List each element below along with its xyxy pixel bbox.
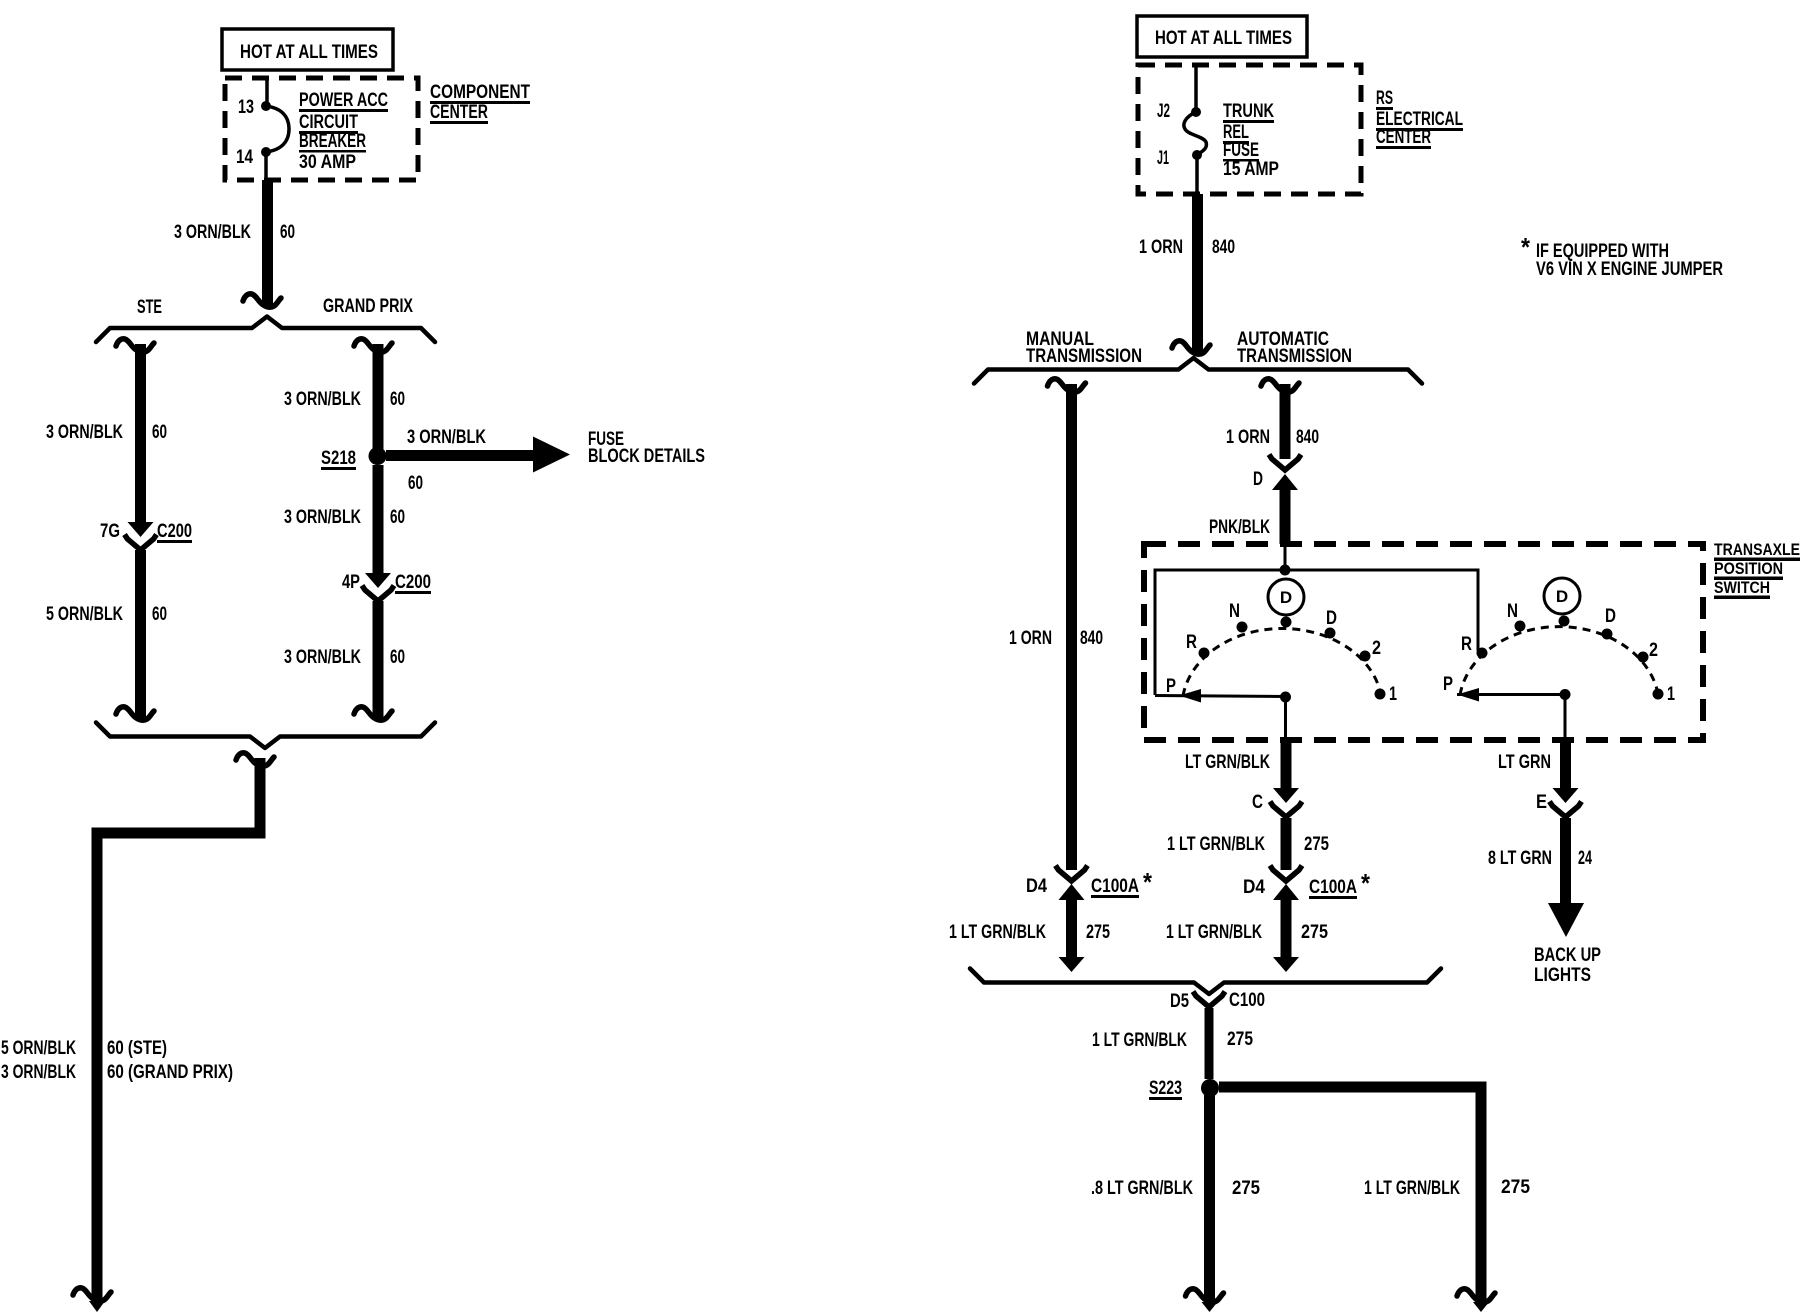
svg-text:60: 60 (408, 473, 423, 494)
wire 3 ORN/BLK 60 from breaker (heavy) (262, 180, 273, 305)
svg-text:60 (STE): 60 (STE) (107, 1038, 167, 1059)
svg-text:275: 275 (1086, 922, 1110, 943)
svg-text:60: 60 (152, 604, 167, 625)
svg-text:BREAKER: BREAKER (299, 131, 366, 152)
svg-text:60: 60 (390, 507, 405, 528)
GRAND PRIX wire 3 ORN/BLK 60 middle (heavy) (373, 465, 384, 573)
svg-text:1 LT GRN/BLK: 1 LT GRN/BLK (1092, 1030, 1187, 1051)
svg-text:3 ORN/BLK: 3 ORN/BLK (407, 427, 486, 448)
svg-text:3 ORN/BLK: 3 ORN/BLK (46, 422, 123, 443)
connector D fishtail (upper half) (1269, 455, 1301, 471)
RS electrical center dashed box (1138, 65, 1361, 194)
connector C100 fishtail (D5) (1193, 992, 1225, 1008)
svg-text:PNK/BLK: PNK/BLK (1209, 517, 1270, 538)
circuit breaker pin 14 terminal (261, 147, 271, 157)
svg-text:POSITION: POSITION (1714, 559, 1783, 578)
switch 2 contact 2 (1638, 652, 1649, 663)
svg-text:D: D (1253, 469, 1263, 490)
switch 1 wiper arrow at P (1179, 689, 1201, 703)
svg-text:840: 840 (1212, 237, 1235, 258)
svg-text:V6 VIN X ENGINE JUMPER: V6 VIN X ENGINE JUMPER (1536, 259, 1723, 280)
svg-text:840: 840 (1080, 628, 1103, 649)
svg-text:D4: D4 (1026, 876, 1047, 897)
svg-text:60: 60 (390, 389, 405, 410)
automatic branch continuation arrow (1261, 379, 1299, 392)
svg-text:24: 24 (1578, 848, 1592, 869)
switch 2 contact N (1515, 621, 1526, 632)
switch 1 output wire (1284, 697, 1287, 741)
splice S218 (369, 447, 387, 465)
power feed label box HOT AT ALL TIMES (right) (1137, 16, 1307, 57)
continuation arrow below merge (236, 753, 274, 766)
GRAND PRIX branch continuation arrow (354, 339, 392, 352)
off-page arrow bottom left (73, 1288, 111, 1301)
svg-text:HOT AT ALL TIMES: HOT AT ALL TIMES (240, 42, 378, 63)
svg-text:TRANSAXLE: TRANSAXLE (1714, 540, 1800, 559)
svg-text:1 LT GRN/BLK: 1 LT GRN/BLK (1364, 1178, 1460, 1199)
manual wire 1 LT GRN/BLK 275 (heavy) (1066, 900, 1077, 957)
svg-text:P: P (1166, 676, 1176, 697)
wire 8 LT GRN 24 (heavy) (1560, 818, 1571, 904)
STE branch continuation arrow to splice (116, 707, 154, 720)
svg-text:1: 1 (1389, 684, 1397, 705)
connector C male arrow (1273, 788, 1299, 803)
connector C100A male arrow up (manual) (1059, 884, 1085, 900)
svg-text:1 ORN: 1 ORN (1009, 628, 1052, 649)
svg-text:COMPONENT: COMPONENT (430, 82, 530, 103)
svg-text:8 LT GRN: 8 LT GRN (1488, 848, 1552, 869)
transaxle position switch dashed box (1144, 544, 1703, 740)
svg-text:R: R (1186, 632, 1197, 653)
svg-text:*: * (1521, 232, 1531, 262)
connector D male arrow up (1272, 474, 1298, 490)
wire down from merge (heavy) (255, 758, 266, 833)
wire 1 LT GRN/BLK 275 to S223 (1205, 1008, 1214, 1079)
arrow to FUSE BLOCK DETAILS (533, 437, 570, 473)
svg-text:C100: C100 (1229, 990, 1265, 1011)
svg-text:LIGHTS: LIGHTS (1534, 965, 1591, 986)
fuse terminal J2 (1191, 107, 1201, 117)
svg-text:CENTER: CENTER (1376, 127, 1431, 148)
svg-text:3 ORN/BLK: 3 ORN/BLK (1, 1062, 76, 1083)
svg-text:TRANSMISSION: TRANSMISSION (1026, 346, 1142, 367)
svg-text:N: N (1229, 601, 1240, 622)
svg-text:C: C (1252, 792, 1263, 813)
switch 2 contact top (D indicator) (1559, 616, 1570, 627)
wire J1 to box edge (1195, 155, 1199, 194)
long wire down left margin (heavy) (92, 828, 103, 1302)
switch 2 wiper line (1457, 693, 1565, 696)
switch feed bus (inner box) (1155, 570, 1478, 695)
GRAND PRIX wire 3 ORN/BLK 60 lower (heavy) (373, 601, 384, 720)
svg-text:LT GRN: LT GRN (1498, 752, 1551, 773)
circuit breaker pin 13 terminal (261, 101, 271, 111)
switch 1 drive indicator circled D (1268, 579, 1304, 615)
svg-text:1: 1 (1667, 684, 1675, 705)
svg-text:D5: D5 (1170, 991, 1189, 1012)
svg-text:1 ORN: 1 ORN (1226, 427, 1270, 448)
switch 2 contact R (fed) (1477, 648, 1488, 659)
fuse terminal J1 (1192, 150, 1202, 160)
svg-text:275: 275 (1232, 1178, 1260, 1199)
STE branch continuation arrow (116, 339, 154, 352)
svg-text:D: D (1556, 587, 1568, 606)
power feed label box HOT AT ALL TIMES (left) (222, 29, 393, 70)
switch feed junction (1280, 565, 1291, 576)
elbow wire to left (heavy) (92, 828, 266, 839)
switch 1 contact top (D indicator) (1281, 617, 1292, 628)
svg-text:3 ORN/BLK: 3 ORN/BLK (284, 507, 361, 528)
manual branch wire 1 ORN 840 (heavy) (1066, 384, 1077, 870)
svg-text:C100A: C100A (1309, 877, 1357, 898)
svg-text:R: R (1461, 634, 1472, 655)
GRAND PRIX continuation arrow to splice (354, 707, 392, 720)
svg-text:275: 275 (1301, 922, 1328, 943)
svg-text:N: N (1507, 601, 1518, 622)
split brace manual/automatic transmission (974, 358, 1422, 384)
svg-text:1 ORN: 1 ORN (1139, 237, 1183, 258)
svg-text:STE: STE (137, 297, 162, 318)
svg-text:TRANSMISSION: TRANSMISSION (1237, 346, 1352, 367)
off-page arrow bottom right (1457, 1289, 1495, 1302)
wire from feed to fuse J2 (1194, 66, 1198, 112)
svg-text:C100A: C100A (1091, 876, 1139, 897)
svg-text:60 (GRAND PRIX): 60 (GRAND PRIX) (107, 1062, 233, 1083)
svg-text:J2: J2 (1157, 101, 1170, 122)
switch 1 rotary arc (dashed) (1183, 628, 1381, 696)
svg-text:S218: S218 (321, 448, 356, 469)
split brace STE / GRAND PRIX (96, 317, 435, 343)
switch 2 output wire (1564, 695, 1567, 742)
svg-text:FUSE: FUSE (1223, 140, 1259, 161)
connector C100A fishtail (manual) (1056, 866, 1088, 882)
wire pin 14 to box edge (264, 152, 268, 180)
svg-text:7G: 7G (100, 521, 120, 542)
switch 1 wiper line (1155, 696, 1285, 697)
svg-text:60: 60 (152, 422, 167, 443)
merge brace of STE and GRAND PRIX (96, 723, 435, 749)
svg-text:4P: 4P (342, 572, 360, 593)
svg-text:3 ORN/BLK: 3 ORN/BLK (174, 222, 251, 243)
svg-text:E: E (1536, 792, 1547, 813)
svg-text:D: D (1280, 588, 1292, 607)
svg-text:LT GRN/BLK: LT GRN/BLK (1185, 752, 1270, 773)
svg-text:POWER ACC: POWER ACC (299, 90, 388, 111)
svg-text:15 AMP: 15 AMP (1223, 159, 1279, 180)
merge brace at C100 (970, 969, 1441, 995)
svg-text:S223: S223 (1149, 1078, 1182, 1099)
trunk rel fuse element (S-curve) (1184, 112, 1207, 155)
connector E male arrow (1553, 788, 1579, 803)
wire 1 LT GRN/BLK 275 right branch (heavy) (1219, 1082, 1487, 1093)
switch 2 rotary arc (dashed) (1460, 627, 1658, 695)
svg-text:5 ORN/BLK: 5 ORN/BLK (46, 604, 123, 625)
wire PNK/BLK into switch (heavy) (1280, 490, 1291, 544)
switch 2 contact D (1602, 629, 1613, 640)
switch 1 contact R (1199, 648, 1210, 659)
component center dashed box (225, 78, 418, 180)
STE branch wire 3 ORN/BLK 60 (heavy) (135, 344, 146, 522)
svg-text:D: D (1326, 608, 1337, 629)
wire from HOT feed into breaker pin 13 (265, 80, 269, 106)
svg-text:840: 840 (1296, 427, 1319, 448)
switch 2 drive indicator circled D (1544, 578, 1580, 614)
svg-text:1 LT GRN/BLK: 1 LT GRN/BLK (1166, 922, 1262, 943)
svg-text:BLOCK DETAILS: BLOCK DETAILS (588, 446, 705, 467)
svg-text:13: 13 (238, 97, 254, 118)
continuation arrow onto transmission split (1172, 341, 1210, 354)
connector C100A male arrow up (auto) (1273, 884, 1299, 900)
connector C200 male arrow (4P) (365, 573, 391, 588)
svg-text:275: 275 (1304, 834, 1329, 855)
switch 2 wiper arrow at P (1457, 688, 1479, 702)
connector C100A fishtail (auto) (1270, 866, 1302, 882)
splice S223 (1201, 1079, 1219, 1097)
wire LT GRN/BLK below switch (heavy) (1281, 741, 1292, 788)
svg-text:CENTER: CENTER (430, 102, 488, 123)
wire 1 LT GRN/BLK 275 (heavy) (1281, 818, 1292, 870)
svg-text:2: 2 (1372, 638, 1381, 659)
svg-text:2: 2 (1649, 640, 1658, 661)
connector C200 female fishtail (7G) (125, 535, 157, 551)
manual branch continuation arrow (1048, 379, 1086, 392)
svg-text:1 LT GRN/BLK: 1 LT GRN/BLK (1167, 834, 1265, 855)
svg-text:GRAND PRIX: GRAND PRIX (323, 296, 413, 317)
svg-text:275: 275 (1501, 1177, 1530, 1198)
svg-text:*: * (1143, 867, 1153, 897)
switch 1 contact N (1237, 622, 1248, 633)
svg-text:60: 60 (390, 647, 405, 668)
automatic wire 1 ORN 840 (heavy) (1280, 384, 1291, 459)
svg-text:P: P (1443, 674, 1453, 695)
wire LT GRN below switch 2 (heavy) (1560, 741, 1571, 788)
svg-text:TRUNK: TRUNK (1223, 101, 1274, 122)
arrow to BACK UP LIGHTS (1548, 903, 1584, 937)
connector C fishtail (1270, 802, 1302, 818)
off-page arrow bottom (.8 LT GRN/BLK) (1186, 1289, 1224, 1302)
svg-text:.8 LT GRN/BLK: .8 LT GRN/BLK (1091, 1178, 1193, 1199)
switch 1 contact 2 (1360, 651, 1371, 662)
svg-text:14: 14 (236, 147, 253, 168)
svg-text:3 ORN/BLK: 3 ORN/BLK (284, 389, 361, 410)
connector C200 male arrow (7G) (128, 522, 154, 537)
switch 2 output junction (1560, 689, 1571, 700)
svg-text:3 ORN/BLK: 3 ORN/BLK (284, 647, 361, 668)
svg-text:5 ORN/BLK: 5 ORN/BLK (1, 1038, 76, 1059)
svg-text:1 LT GRN/BLK: 1 LT GRN/BLK (949, 922, 1046, 943)
switch 1 contact 1 (1375, 689, 1386, 700)
svg-text:D4: D4 (1243, 877, 1265, 898)
switch 1 output junction (1280, 692, 1291, 703)
auto wire arrow into splice (1273, 957, 1299, 972)
svg-text:D: D (1605, 606, 1616, 627)
auto wire 1 LT GRN/BLK 275 (heavy) (1281, 900, 1292, 957)
wire .8 LT GRN/BLK 275 down (heavy) (1204, 1095, 1215, 1301)
connector C200 female fishtail (4P) (362, 586, 394, 602)
STE branch wire 5 ORN/BLK 60 (heavy) (135, 550, 146, 720)
svg-text:HOT AT ALL TIMES: HOT AT ALL TIMES (1155, 28, 1292, 49)
switch 1 contact D (1325, 628, 1336, 639)
svg-text:C200: C200 (395, 572, 431, 593)
svg-text:275: 275 (1227, 1029, 1253, 1050)
svg-text:CIRCUIT: CIRCUIT (299, 112, 358, 133)
svg-text:BACK UP: BACK UP (1534, 945, 1601, 966)
svg-text:30 AMP: 30 AMP (299, 152, 356, 173)
svg-text:C200: C200 (157, 521, 192, 542)
svg-text:*: * (1361, 868, 1371, 898)
manual wire arrow into splice (1059, 957, 1085, 972)
GRAND PRIX wire 3 ORN/BLK 60 upper (heavy) (373, 344, 384, 449)
svg-text:60: 60 (280, 222, 295, 243)
wire 1 ORN 840 feed (heavy) (1192, 194, 1203, 352)
wire into switch interior (1284, 544, 1287, 570)
circuit breaker element (thermal arc) (266, 106, 289, 152)
svg-text:SWITCH: SWITCH (1714, 578, 1770, 597)
connector E fishtail (1550, 802, 1582, 818)
switch 2 contact 1 (1653, 689, 1664, 700)
svg-text:J1: J1 (1157, 148, 1169, 169)
svg-text:RS: RS (1376, 88, 1393, 109)
continuation arrow onto split S (243, 294, 281, 307)
wire 3 ORN/BLK to fuse block (heavy) (386, 450, 533, 461)
